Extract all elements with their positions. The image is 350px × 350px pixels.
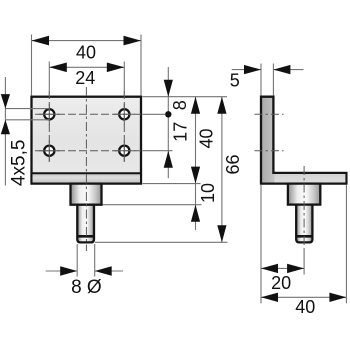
svg-text:4x5,5: 4x5,5 xyxy=(9,140,30,186)
dim 8 dia: arrow left-pointing xyxy=(95,266,112,275)
dim 40 bottom: dimension line xyxy=(261,296,346,298)
svg-text:24: 24 xyxy=(75,68,95,88)
hole crosshair at 124.3,150.7 xyxy=(114,140,135,161)
dim 40 top: arrow right xyxy=(124,36,142,46)
front flange strip xyxy=(33,173,140,182)
dim 40 top: extension line right xyxy=(140,35,142,96)
front plate xyxy=(32,97,142,184)
plate vertical centerline xyxy=(85,87,87,251)
hole crosshair at 49.3,114.3 xyxy=(39,104,60,125)
dim 5: label xyxy=(230,71,240,91)
dim 5: extension line left xyxy=(260,64,262,96)
hole row centerline top xyxy=(35,113,141,115)
dim 8/17: dimension line xyxy=(167,67,169,178)
dim 40 bottom: arrow right xyxy=(329,293,346,302)
svg-text:40: 40 xyxy=(295,297,315,317)
pin front xyxy=(77,205,94,243)
dim 24: arrow right xyxy=(107,63,125,73)
svg-text:10: 10 xyxy=(198,183,218,203)
hole row centerline bottom xyxy=(35,150,141,152)
dim 8: label xyxy=(170,100,190,110)
pin front chamfer line xyxy=(77,235,94,238)
dim 5: arrow right-pointing xyxy=(244,65,261,74)
extension line bottom hole row right xyxy=(143,150,173,152)
dim 5: extension line right xyxy=(272,64,274,96)
dim 40 right: label xyxy=(196,128,216,148)
dim 24: extension line left xyxy=(48,62,50,96)
side pin centerline xyxy=(303,166,305,249)
dim 40/10: dimension line xyxy=(195,97,197,230)
extension line plate top right xyxy=(143,96,228,98)
svg-text:40: 40 xyxy=(196,128,216,148)
dim 10: arrow up outside xyxy=(191,205,200,222)
dim 66: label xyxy=(223,154,243,174)
dim 40 top: dimension line xyxy=(32,40,142,42)
dim 20: arrow right xyxy=(287,264,304,273)
dim 4x5,5: extension line top xyxy=(5,108,49,110)
node dot xyxy=(165,111,171,117)
front flange line xyxy=(32,172,142,174)
dim 8 dia: dimension line with tails xyxy=(46,270,123,272)
dim 40 bottom: label xyxy=(295,297,315,317)
collar front xyxy=(71,184,102,205)
dim 17: label xyxy=(170,122,190,142)
dim 8 dia: arrow right-pointing xyxy=(60,266,77,275)
svg-text:5: 5 xyxy=(230,71,240,91)
hole crosshair at 49.3,150.7 xyxy=(39,140,60,161)
svg-text:20: 20 xyxy=(271,273,291,293)
dim 66: dimension line xyxy=(221,97,223,243)
dim 40 top: label xyxy=(76,43,96,63)
hole column centerline left xyxy=(48,91,50,162)
dim 5: dimension line with tails xyxy=(232,69,304,71)
collar side xyxy=(288,184,320,205)
hole bottom-left xyxy=(44,146,54,156)
dim 20: arrow left xyxy=(261,264,278,273)
dim 24: arrow left xyxy=(49,63,67,73)
side leg fill xyxy=(275,174,346,183)
dim 8: arrow down xyxy=(164,80,173,97)
dim 40 top: arrow left xyxy=(32,36,50,46)
dim 40 bottom: arrow left xyxy=(261,293,278,302)
extension line top hole row right xyxy=(143,113,166,115)
extension line plate bottom right xyxy=(143,183,201,185)
svg-text:8 Ø: 8 Ø xyxy=(71,277,102,298)
dim 10: label xyxy=(198,183,218,203)
side view L-profile xyxy=(261,97,346,184)
side hole centerline bottom xyxy=(255,150,284,152)
dim 8 dia: extension line left xyxy=(76,244,78,277)
dim 40 right: arrow down xyxy=(191,167,200,184)
dim 20: label xyxy=(271,273,291,293)
svg-text:17: 17 xyxy=(170,122,190,142)
dim 66: arrow down xyxy=(217,225,226,242)
extension line pin tip xyxy=(95,241,228,243)
dim 66: arrow up xyxy=(217,97,226,114)
svg-text:40: 40 xyxy=(76,43,96,63)
svg-text:8: 8 xyxy=(170,100,190,110)
dim 4x5,5: extension line bottom xyxy=(5,119,49,121)
dim 5: arrow left-pointing xyxy=(273,65,290,74)
dim 4x5,5: dimension line xyxy=(4,77,6,186)
dim 24: label xyxy=(75,68,95,88)
dim 20: dimension line xyxy=(261,267,304,269)
extension line wall left lower xyxy=(260,185,262,303)
dim 4x5,5: arrow down xyxy=(1,94,10,109)
hole top-left xyxy=(44,109,54,119)
dim 8 dia: extension line right xyxy=(94,244,96,277)
extension line pin axis to 20-dim xyxy=(303,249,305,275)
dim 17: arrow up xyxy=(164,151,173,168)
dim 8 dia: label xyxy=(71,277,102,298)
dim 4x5,5: label xyxy=(9,140,30,186)
side hole centerline top xyxy=(255,113,284,115)
dim 4x5,5: arrow up xyxy=(1,120,10,135)
dim 40 top: extension line left xyxy=(31,35,33,96)
dim 40 right: arrow up xyxy=(191,97,200,114)
pin side xyxy=(296,205,312,243)
dim 24: extension line right xyxy=(123,62,125,96)
dim 24: dimension line xyxy=(49,66,124,68)
extension line collar bottom xyxy=(103,204,202,206)
hole bottom-right xyxy=(119,146,129,156)
pin side chamfer line xyxy=(296,235,312,238)
hole column centerline right xyxy=(123,91,125,162)
extension line leg tip xyxy=(345,185,347,303)
hole crosshair at 124.3,114.3 xyxy=(114,104,135,125)
svg-text:66: 66 xyxy=(223,154,243,174)
hole top-right xyxy=(119,109,129,119)
